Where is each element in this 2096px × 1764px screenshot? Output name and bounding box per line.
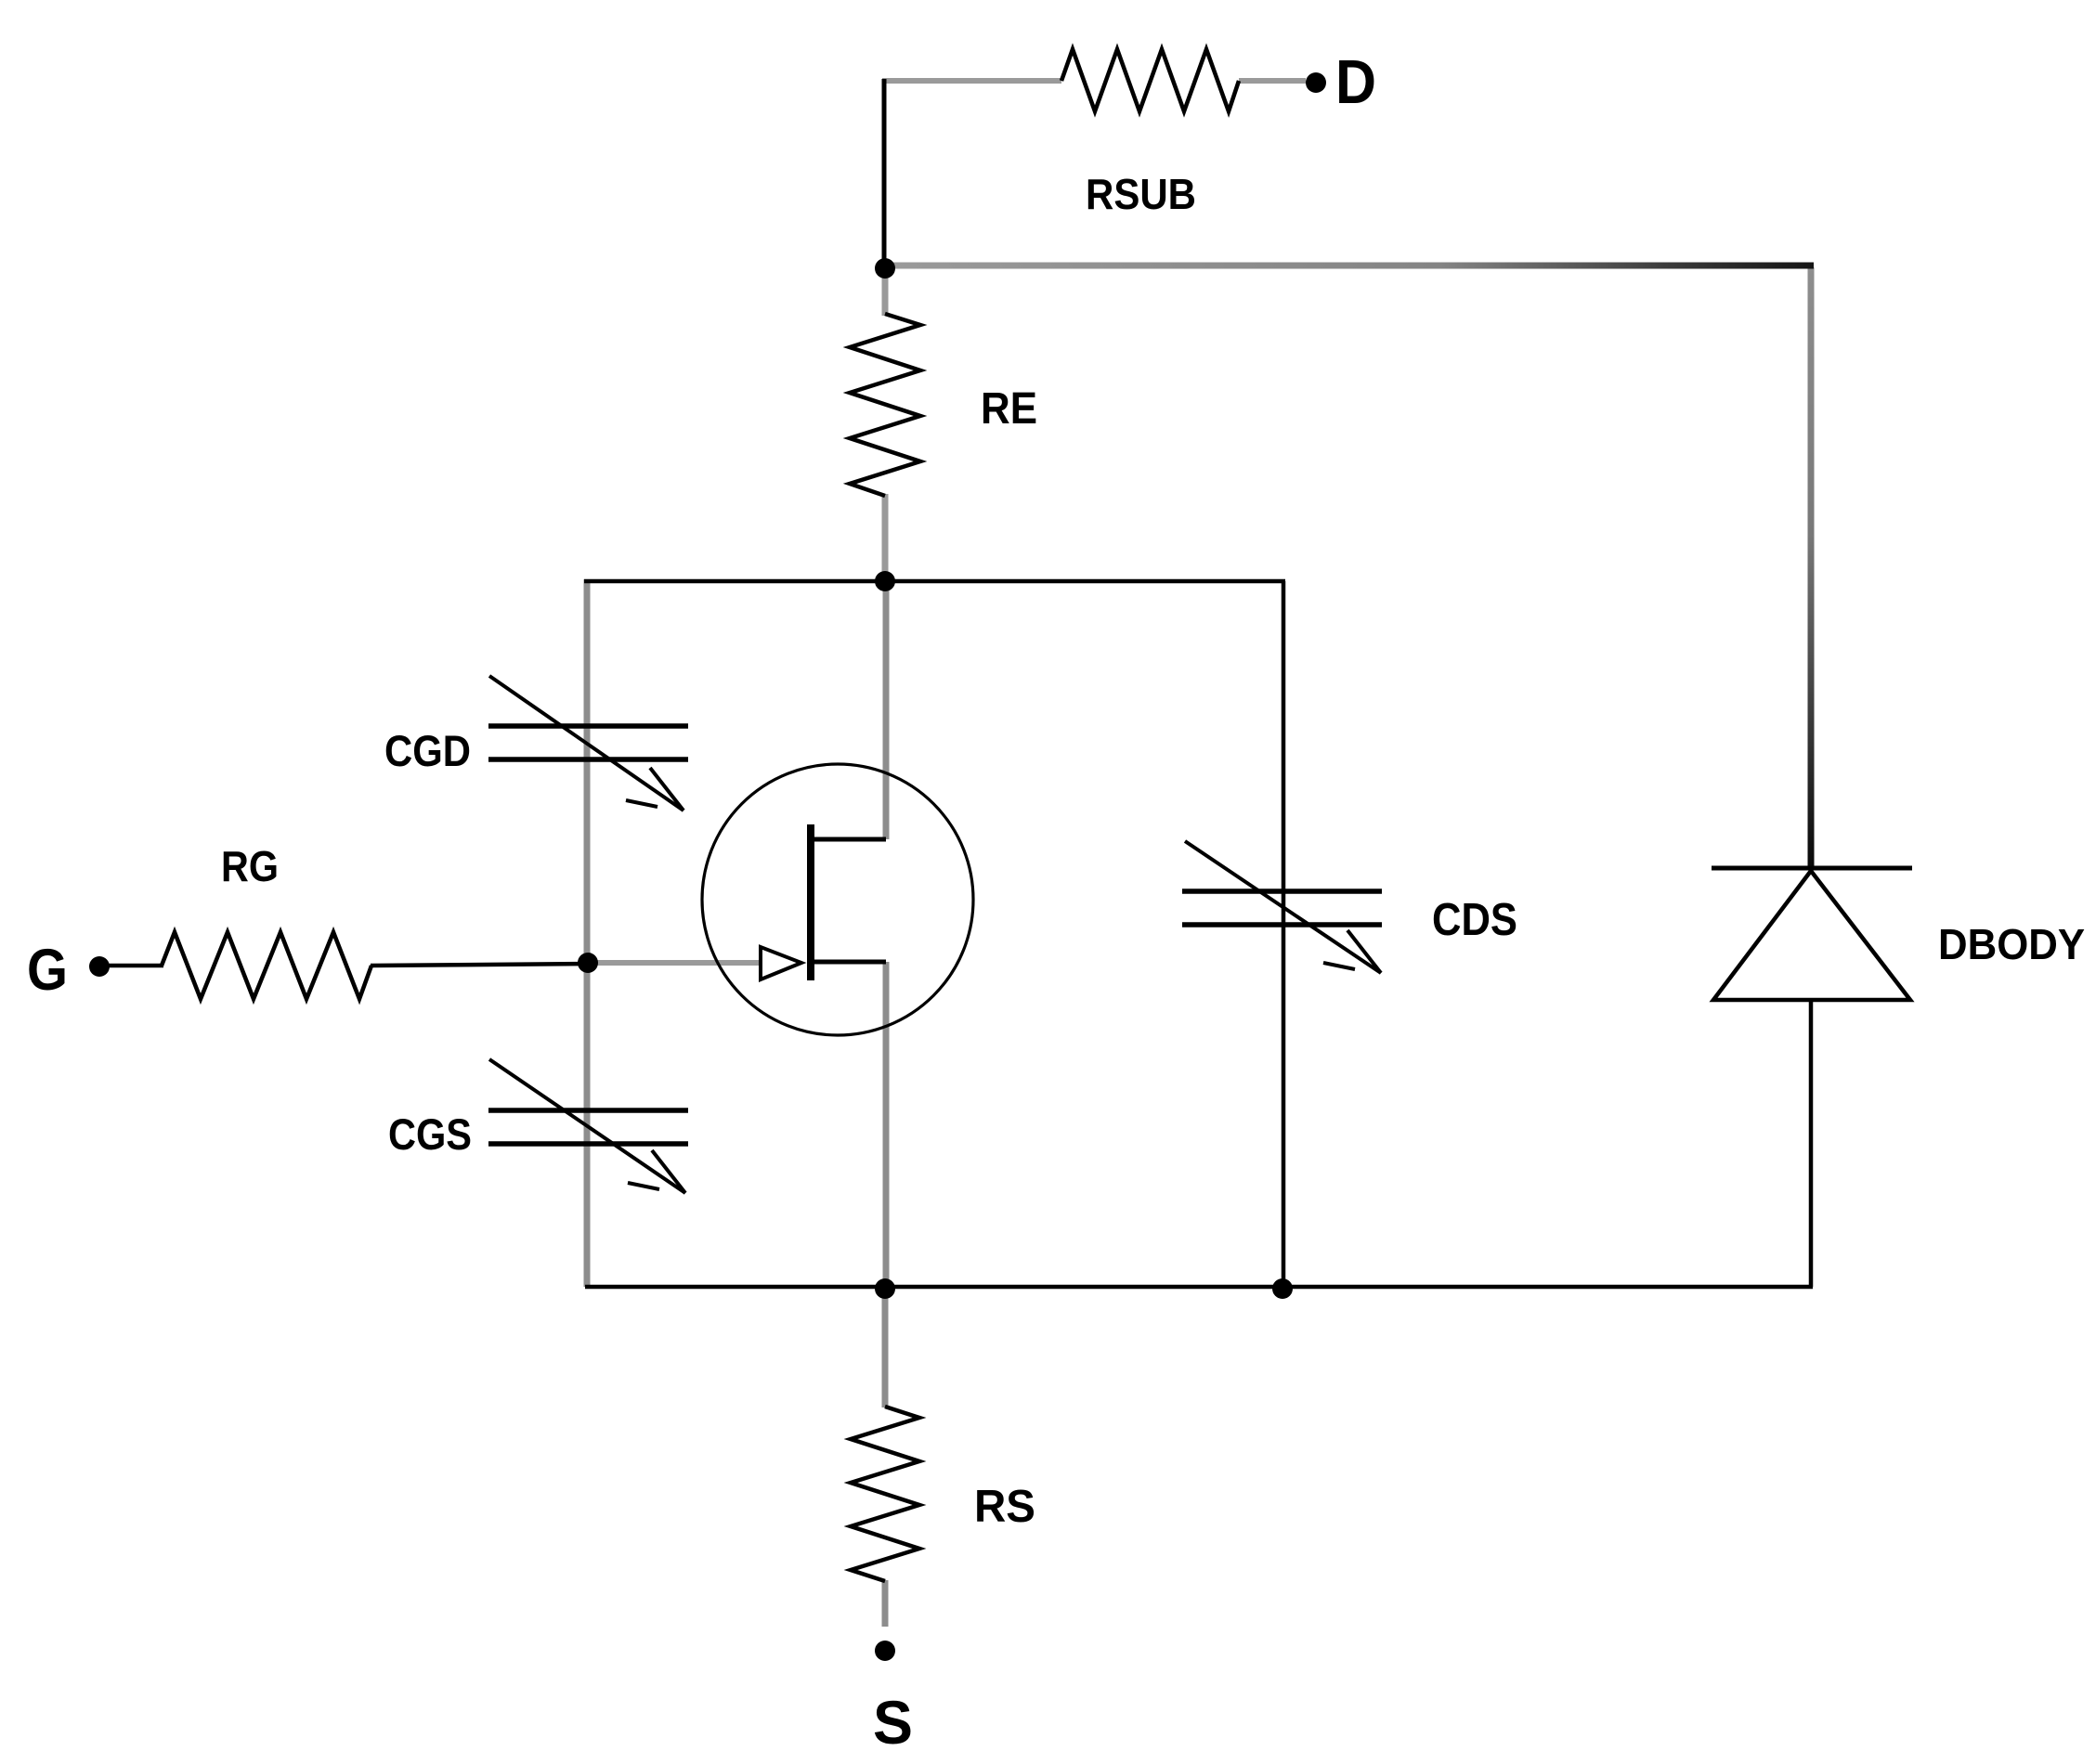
- svg-text:S: S: [873, 1688, 913, 1757]
- svg-text:RSUB: RSUB: [1086, 170, 1196, 218]
- svg-text:D: D: [1335, 47, 1376, 117]
- svg-text:RS: RS: [974, 1482, 1035, 1532]
- svg-text:CGD: CGD: [384, 726, 471, 775]
- svg-text:RE: RE: [981, 384, 1037, 434]
- svg-text:CDS: CDS: [1432, 895, 1517, 945]
- svg-text:CGS: CGS: [388, 1109, 472, 1159]
- svg-text:DBODY: DBODY: [1938, 920, 2085, 968]
- svg-text:G: G: [27, 938, 68, 1003]
- svg-text:RG: RG: [221, 842, 279, 890]
